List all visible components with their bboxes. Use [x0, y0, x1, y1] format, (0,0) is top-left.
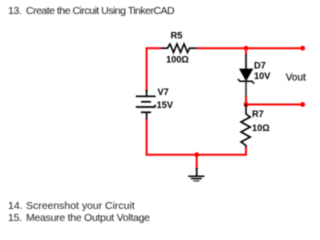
node: junction dot diode/R7/Vout	[244, 102, 249, 107]
battery V7	[136, 90, 156, 120]
wire: bottom red horizontal from left corner to R7 branch corner	[146, 154, 246, 156]
node: junction dot at top of diode branch	[244, 46, 249, 51]
instruction line 14	[8, 201, 135, 212]
svg-text:10Ω: 10Ω	[252, 123, 270, 133]
wire: red stub from bottom wire down to ground	[196, 155, 198, 169]
svg-text:D7: D7	[254, 61, 266, 71]
wire: red stub from R7 bottom to bottom wire corner	[245, 147, 247, 156]
wire: left vertical red from battery - down to bottom-left corner	[146, 119, 148, 154]
instruction line 13	[8, 6, 174, 17]
svg-text:100Ω: 100Ω	[166, 54, 189, 64]
wire: Vout red horizontal to right terminal	[246, 104, 303, 106]
svg-text:R5: R5	[171, 30, 183, 40]
ground	[188, 168, 204, 181]
wire: red stub from top junction into diode anode	[245, 48, 247, 54]
resistor R7	[241, 105, 250, 148]
svg-text:R7: R7	[252, 109, 264, 119]
svg-text:Vout: Vout	[286, 72, 306, 83]
svg-text:V7: V7	[158, 87, 169, 97]
wire: top-left red segment from left corner to R5 left lead	[146, 47, 161, 49]
node: top-right terminal dot	[300, 46, 305, 51]
svg-text:10V: 10V	[254, 71, 271, 81]
wire: top red segment from R5 to right terminal	[197, 47, 303, 49]
svg-text:-15V: -15V	[154, 100, 174, 110]
resistor R5	[161, 44, 197, 52]
wire: left vertical red from top corner down to battery +	[146, 48, 148, 91]
node: Vout terminal dot	[300, 102, 305, 107]
diode D7 (zener)	[238, 54, 254, 98]
node: ground junction dot	[194, 152, 199, 157]
wire: red stub diode cathode to middle junction	[245, 97, 247, 105]
instruction line 15	[8, 213, 150, 224]
